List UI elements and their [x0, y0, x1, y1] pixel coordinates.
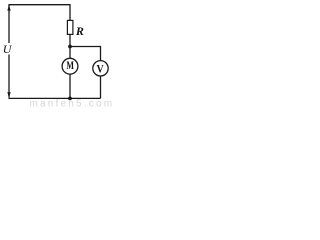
svg-text:U: U	[3, 42, 13, 56]
svg-text:R: R	[75, 24, 84, 38]
svg-text:V: V	[97, 61, 104, 75]
svg-text:M: M	[66, 58, 74, 72]
